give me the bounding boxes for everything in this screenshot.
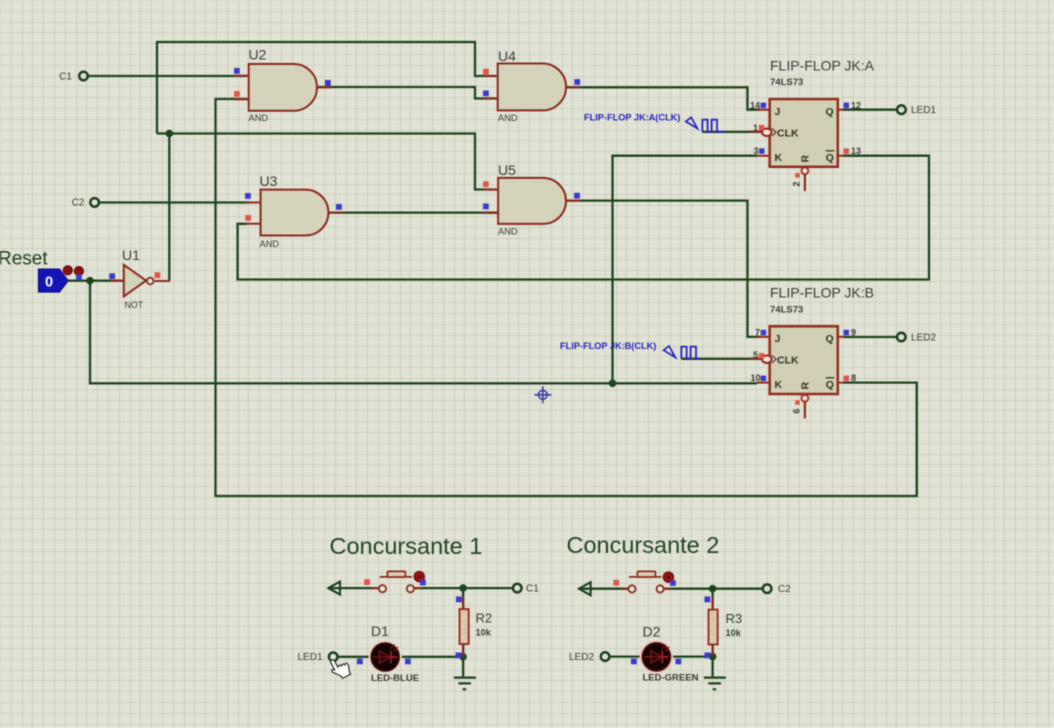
pin marker blue FF-A pin12 bbox=[844, 103, 850, 109]
input arrow terminal button row 2 bbox=[579, 582, 591, 595]
terminal C1 bottom bbox=[513, 584, 522, 593]
pin marker blue button1 bbox=[420, 580, 426, 586]
pin marker blue D1 left bbox=[357, 659, 363, 665]
svg-text:LED1: LED1 bbox=[911, 105, 936, 116]
pin marker red FF-B pin5 bbox=[759, 353, 765, 359]
svg-text:Q: Q bbox=[826, 333, 834, 345]
svg-text:10k: 10k bbox=[476, 627, 492, 637]
and gate U2 bbox=[249, 47, 318, 123]
pin marker blue U5 in B bbox=[483, 204, 489, 210]
pin marker red FF-B pin8 bbox=[844, 376, 850, 382]
pin stubs U3 bbox=[246, 203, 343, 224]
svg-text:LED1: LED1 bbox=[297, 652, 322, 663]
pin marker blue U3 in A bbox=[245, 193, 251, 199]
svg-text:Concursante 2: Concursante 2 bbox=[567, 532, 720, 558]
wire Reset net down to K inputs bbox=[90, 281, 757, 384]
junction node D1 to R2 bottom bbox=[459, 653, 467, 661]
junction node reset net to FF-A K bbox=[609, 380, 617, 388]
input arrow terminal button row 1 bbox=[328, 582, 340, 595]
svg-text:U2: U2 bbox=[249, 47, 267, 63]
resistor R3 10k bbox=[709, 597, 743, 657]
pin marker blue D1 right bbox=[405, 659, 411, 665]
hand cursor bbox=[327, 654, 352, 681]
reset toggle red dot 1 bbox=[63, 266, 72, 275]
pin marker blue FF-B pin9 bbox=[844, 330, 850, 336]
junction node button2 to R3 bbox=[709, 585, 717, 593]
LED D1 LED-BLUE bbox=[370, 623, 419, 684]
svg-text:U5: U5 bbox=[498, 162, 516, 178]
pin marker blue R2 bottom bbox=[456, 653, 462, 659]
junction node D2 to R3 bottom bbox=[709, 653, 717, 661]
terminal LED2 output bbox=[897, 333, 906, 342]
svg-text:FLIP-FLOP JK:A(CLK): FLIP-FLOP JK:A(CLK) bbox=[584, 113, 680, 123]
pin marker blue R3 bottom bbox=[705, 652, 711, 658]
net label clock A bbox=[584, 113, 723, 132]
svg-text:AND: AND bbox=[249, 113, 269, 123]
pin marker red FF-A pin2 bbox=[795, 173, 800, 178]
wire U5 output to FF-B J input bbox=[566, 201, 760, 337]
wire C1 to U2 input A bbox=[88, 75, 247, 77]
pin marker blue D2 right bbox=[676, 659, 682, 665]
pin marker red U1 out bbox=[155, 272, 161, 278]
svg-text:K: K bbox=[775, 379, 783, 391]
wire net U1-out: top run to U4 input A bbox=[157, 42, 497, 134]
svg-text:J: J bbox=[775, 333, 781, 345]
wire net U1-out: middle run to U5 input A bbox=[157, 134, 498, 190]
pin marker red FF-A pin13 bbox=[844, 148, 850, 154]
pin marker blue U2 out bbox=[325, 80, 331, 86]
pin stubs U1 bbox=[111, 280, 170, 282]
svg-text:C2: C2 bbox=[72, 198, 85, 209]
pin marker blue D2 left bbox=[631, 659, 637, 665]
wire FF-A Q-bar net: U3 input B down and long run right bbox=[238, 156, 929, 280]
svg-text:LED2: LED2 bbox=[911, 333, 936, 344]
wire D2 to R3 bottom node bbox=[670, 655, 713, 657]
junction node after Reset terminal bbox=[86, 277, 94, 285]
pin marker blue U2 in A bbox=[234, 68, 240, 74]
svg-text:2: 2 bbox=[792, 181, 802, 186]
svg-text:10: 10 bbox=[750, 373, 760, 383]
svg-text:8: 8 bbox=[851, 373, 856, 383]
terminal C1 top-left bbox=[79, 72, 88, 81]
and gate U5 bbox=[498, 162, 566, 237]
pin marker blue U4 out bbox=[574, 79, 580, 85]
and gate U4 bbox=[498, 48, 566, 123]
svg-text:13: 13 bbox=[851, 146, 861, 156]
pin marker red U2 in B bbox=[234, 91, 240, 97]
wire button2 row left bbox=[580, 588, 628, 590]
svg-text:C2: C2 bbox=[778, 584, 791, 595]
pin marker blue FF-A pin14 bbox=[761, 103, 767, 109]
resistor R2 10k bbox=[460, 597, 493, 657]
not gate U1 bbox=[122, 247, 154, 310]
svg-text:14: 14 bbox=[750, 100, 760, 110]
pin marker blue U1 in bbox=[109, 273, 115, 279]
svg-text:Concursante 1: Concursante 1 bbox=[330, 533, 483, 559]
reset toggle red dot 2 bbox=[74, 267, 83, 276]
pin marker red button1 left bbox=[364, 579, 370, 585]
pin marker red U5 in A bbox=[483, 181, 489, 187]
wire button1 row right to C1 terminal bbox=[415, 587, 514, 589]
origin crosshair marker bbox=[534, 386, 551, 403]
pin marker red FF-B pin6 bbox=[795, 400, 800, 405]
pin marker blue FF-B pin7 bbox=[761, 330, 767, 336]
net label clock B bbox=[560, 341, 701, 359]
push button 1 bbox=[372, 571, 425, 592]
wire U3 output to U5 input B bbox=[329, 211, 499, 213]
pin marker blue U5 out bbox=[574, 193, 580, 199]
svg-text:1: 1 bbox=[753, 123, 758, 133]
wire C2 to U3 input A bbox=[99, 201, 250, 203]
svg-text:5: 5 bbox=[753, 350, 758, 360]
pin marker blue U3 out bbox=[336, 204, 342, 210]
svg-text:FLIP-FLOP JK:B: FLIP-FLOP JK:B bbox=[770, 285, 874, 301]
terminal C2 bottom bbox=[763, 584, 772, 593]
wire LED2 terminal to D2 bbox=[610, 655, 643, 657]
wire U1 output up to node at y133 bbox=[168, 134, 170, 281]
svg-text:FLIP-FLOP JK:A: FLIP-FLOP JK:A bbox=[770, 58, 875, 74]
junction node at U1-out branch bbox=[166, 130, 174, 138]
wire button1 row left bbox=[329, 587, 379, 589]
svg-text:LED-GREEN: LED-GREEN bbox=[643, 673, 699, 684]
svg-text:AND: AND bbox=[498, 113, 518, 123]
wire FF-B Q to LED2 terminal bbox=[843, 336, 897, 338]
svg-text:R: R bbox=[800, 382, 812, 390]
logic state terminal Reset bbox=[38, 269, 68, 292]
wire R2 bottom to ground bbox=[462, 644, 464, 676]
svg-text:CLK: CLK bbox=[777, 128, 799, 140]
svg-text:AND: AND bbox=[260, 239, 280, 249]
svg-text:R: R bbox=[800, 155, 812, 163]
wire FF-A Q to LED1 terminal bbox=[843, 109, 897, 111]
svg-text:LED2: LED2 bbox=[569, 652, 594, 663]
svg-text:Q: Q bbox=[826, 152, 834, 164]
pin marker blue Reset bbox=[76, 274, 82, 280]
wire LED1 terminal to D1 bbox=[338, 656, 372, 658]
svg-text:C1: C1 bbox=[526, 583, 539, 594]
svg-text:3: 3 bbox=[753, 146, 758, 156]
svg-text:U1: U1 bbox=[122, 247, 140, 263]
pin marker blue FF-B pin10 bbox=[761, 376, 767, 382]
pin stubs U2 bbox=[234, 76, 332, 100]
svg-text:C1: C1 bbox=[59, 72, 72, 83]
svg-text:U3: U3 bbox=[260, 173, 278, 189]
svg-text:K: K bbox=[775, 152, 783, 164]
svg-text:Reset: Reset bbox=[0, 249, 48, 270]
wire button2 row right to C2 terminal bbox=[664, 588, 763, 590]
svg-text:LED-BLUE: LED-BLUE bbox=[371, 673, 419, 684]
flip-flop U? FLIP-FLOP JK:B 74LS73 bbox=[750, 285, 874, 419]
svg-text:7: 7 bbox=[755, 328, 760, 338]
wire U4 output to FF-A J input bbox=[566, 87, 760, 109]
pin marker red U4 in A bbox=[483, 69, 489, 75]
wire D1 to R2 bottom node bbox=[399, 656, 464, 658]
push button 2 bbox=[621, 571, 673, 592]
svg-text:10k: 10k bbox=[726, 628, 742, 638]
pin marker red FF-A pin1 bbox=[759, 125, 765, 131]
svg-text:6: 6 bbox=[792, 408, 802, 413]
svg-text:Q: Q bbox=[826, 379, 834, 391]
pin marker red button2 left bbox=[613, 580, 619, 586]
svg-text:74LS73: 74LS73 bbox=[770, 305, 803, 316]
wire FF-B Q-bar to U2 input B bbox=[216, 99, 917, 496]
wire clock B to FF-B CLK bbox=[681, 358, 761, 360]
pin stubs U4 bbox=[483, 76, 581, 98]
svg-text:0: 0 bbox=[45, 275, 53, 291]
svg-text:D2: D2 bbox=[643, 624, 661, 640]
svg-text:FLIP-FLOP JK:B(CLK): FLIP-FLOP JK:B(CLK) bbox=[560, 341, 656, 351]
terminal LED1 output bbox=[897, 105, 906, 114]
flip-flop U? FLIP-FLOP JK:A 74LS73 bbox=[750, 58, 875, 383]
svg-text:NOT: NOT bbox=[125, 300, 144, 310]
pin marker red U3 in B bbox=[245, 215, 251, 221]
svg-text:R2: R2 bbox=[476, 611, 493, 626]
wire FF-A K to reset net bbox=[613, 156, 758, 384]
ground symbol under R3 bbox=[704, 678, 726, 690]
svg-text:U4: U4 bbox=[498, 48, 516, 64]
junction node button1 to R2 bbox=[459, 584, 467, 592]
svg-text:9: 9 bbox=[851, 328, 856, 338]
ground symbol under R2 bbox=[454, 678, 476, 690]
pin marker blue button2 bbox=[670, 580, 676, 586]
terminal C2 left bbox=[90, 198, 99, 207]
svg-text:R3: R3 bbox=[726, 611, 743, 626]
terminal LED1 bottom bbox=[329, 653, 338, 662]
svg-text:74LS73: 74LS73 bbox=[770, 77, 803, 88]
svg-text:D1: D1 bbox=[371, 623, 389, 639]
pin marker blue R3 top bbox=[705, 597, 711, 603]
pin marker blue R2 top bbox=[456, 597, 462, 603]
wire clock A to FF-A CLK bbox=[702, 131, 762, 133]
pin marker blue FF-A pin3 bbox=[759, 148, 765, 154]
wire Reset to U1 input bbox=[67, 280, 122, 282]
wire R3 bottom to ground bbox=[711, 644, 713, 677]
LED D2 LED-GREEN bbox=[641, 624, 699, 684]
pin marker blue U4 in B bbox=[483, 91, 489, 97]
svg-text:CLK: CLK bbox=[777, 354, 799, 366]
svg-text:J: J bbox=[775, 106, 781, 118]
pin stubs U5 bbox=[483, 190, 581, 213]
wire R2 branch down bbox=[462, 588, 464, 609]
svg-text:12: 12 bbox=[851, 100, 861, 110]
svg-text:Q: Q bbox=[826, 106, 834, 118]
wire U2 output to U4 input B bbox=[317, 87, 497, 99]
wire R3 branch down bbox=[711, 589, 713, 610]
and gate U3 bbox=[260, 173, 329, 249]
terminal LED2 bottom bbox=[601, 652, 610, 661]
svg-text:AND: AND bbox=[498, 227, 518, 237]
